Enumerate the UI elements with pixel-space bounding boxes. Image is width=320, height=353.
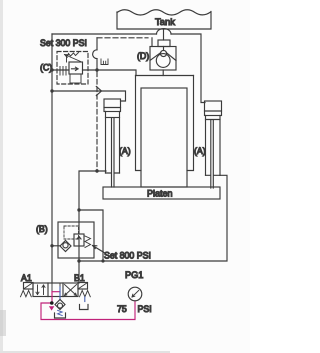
node C inlet [50, 68, 53, 71]
svg-text:(C): (C) [40, 63, 52, 73]
pilot line (dashed) from valve C to prefill valve D [93, 38, 152, 70]
tank path (blue) from valve [59, 287, 61, 300]
cylinder A left: barrel [106, 112, 120, 174]
check valve on tank line [55, 300, 65, 310]
solenoid left [24, 283, 34, 290]
solenoid right [78, 283, 88, 290]
drain symbol near valve C pilot [101, 59, 108, 65]
valve B relief element [74, 234, 84, 246]
counterbalance valve B enclosure [58, 222, 94, 258]
tank [117, 10, 211, 29]
svg-text:(A): (A) [119, 146, 131, 156]
directional valve left envelope arrows [36, 285, 45, 295]
svg-text:Platen: Platen [147, 189, 173, 199]
node rail B tap [50, 244, 53, 247]
wire supply rail top run to right cylinder (with crossover hop) [52, 29, 205, 103]
svg-text:Set 800 PSI: Set 800 PSI [104, 251, 151, 261]
wire C inlet [52, 69, 69, 71]
valve B spring [85, 236, 91, 248]
valve B inner pilot box (dashed) [64, 226, 79, 239]
svg-text:Tank: Tank [155, 17, 175, 28]
wire through valve B [78, 222, 80, 283]
svg-text:B1: B1 [74, 273, 85, 283]
tank symbol below valve [55, 313, 66, 318]
svg-text:75: 75 [117, 304, 127, 314]
spring below check (blue) [58, 310, 63, 315]
node branch to return [77, 208, 80, 211]
node C outlet pilot tap [95, 68, 98, 71]
wire right cylinder rod-side line down the right rail [79, 175, 227, 261]
main ram block [141, 88, 187, 187]
flow arrowhead (magenta) [49, 306, 54, 310]
ram header frame [136, 76, 194, 171]
pressure gauge PG1 [117, 270, 152, 314]
cylinder A right: cap [205, 101, 222, 116]
cylinder A left: rod [112, 118, 115, 187]
check valve D (prefill) [150, 40, 176, 70]
directional valve right envelope crossed arrows [65, 285, 77, 296]
svg-text:A1: A1 [21, 273, 32, 283]
cylinder A right: rod [211, 120, 214, 188]
pressurised path (magenta) through valve to gauge [41, 292, 135, 320]
pressure reducing valve C enclosure [57, 52, 88, 85]
scan edge shading [0, 0, 170, 353]
svg-text:PG1: PG1 [125, 270, 143, 280]
spring right [80, 291, 91, 297]
svg-text:(A): (A) [194, 146, 206, 156]
wire rail to check valve [52, 245, 60, 247]
node left rail / cylinder feed [50, 89, 53, 92]
valve B check valve [60, 241, 71, 252]
wire left cylinder rod-side line [79, 171, 106, 222]
spring left [21, 291, 32, 297]
node return junction [101, 259, 104, 262]
platen [103, 187, 220, 199]
directional valve centre envelope ports [52, 284, 60, 292]
pilot line (dashed) from C enclosure down to rod line [96, 72, 98, 171]
tank symbol right drain [80, 305, 89, 310]
pressure reducing valve C [60, 53, 83, 84]
svg-text:Set 300 PSI: Set 300 PSI [40, 38, 87, 48]
drain (blue) right end [84, 297, 86, 302]
wire rail to left cylinder cap (with flow arrow) [52, 86, 126, 101]
node B1 return junction [77, 259, 80, 262]
svg-text:(B): (B) [36, 224, 48, 234]
node pilot tap on rod line [95, 169, 98, 172]
label arrow Set 800 PSI [93, 246, 151, 261]
wire tank to check valve D [163, 29, 165, 40]
cylinder A left: cap [104, 99, 121, 112]
svg-text:(D): (D) [137, 51, 149, 61]
wire bypass branch to return line [79, 210, 103, 261]
svg-text:PSI: PSI [138, 304, 152, 314]
node P junction [50, 301, 54, 305]
left supply rail [51, 34, 53, 283]
directional valve body [33, 283, 78, 297]
wire D to ram header [162, 70, 164, 76]
cylinder A right: barrel [206, 116, 221, 176]
wire C outlet to ram header [83, 70, 137, 76]
